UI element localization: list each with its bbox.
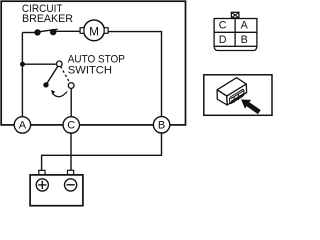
svg-text:D: D <box>219 34 227 46</box>
svg-text:C: C <box>219 20 227 32</box>
svg-text:BREAKER: BREAKER <box>22 13 73 25</box>
svg-text:M: M <box>89 25 99 39</box>
svg-text:SWITCH: SWITCH <box>68 65 112 77</box>
svg-text:A: A <box>19 120 27 132</box>
svg-text:B: B <box>158 120 165 132</box>
svg-text:B: B <box>241 34 248 46</box>
svg-text:A: A <box>241 20 249 32</box>
svg-text:C: C <box>67 120 75 132</box>
